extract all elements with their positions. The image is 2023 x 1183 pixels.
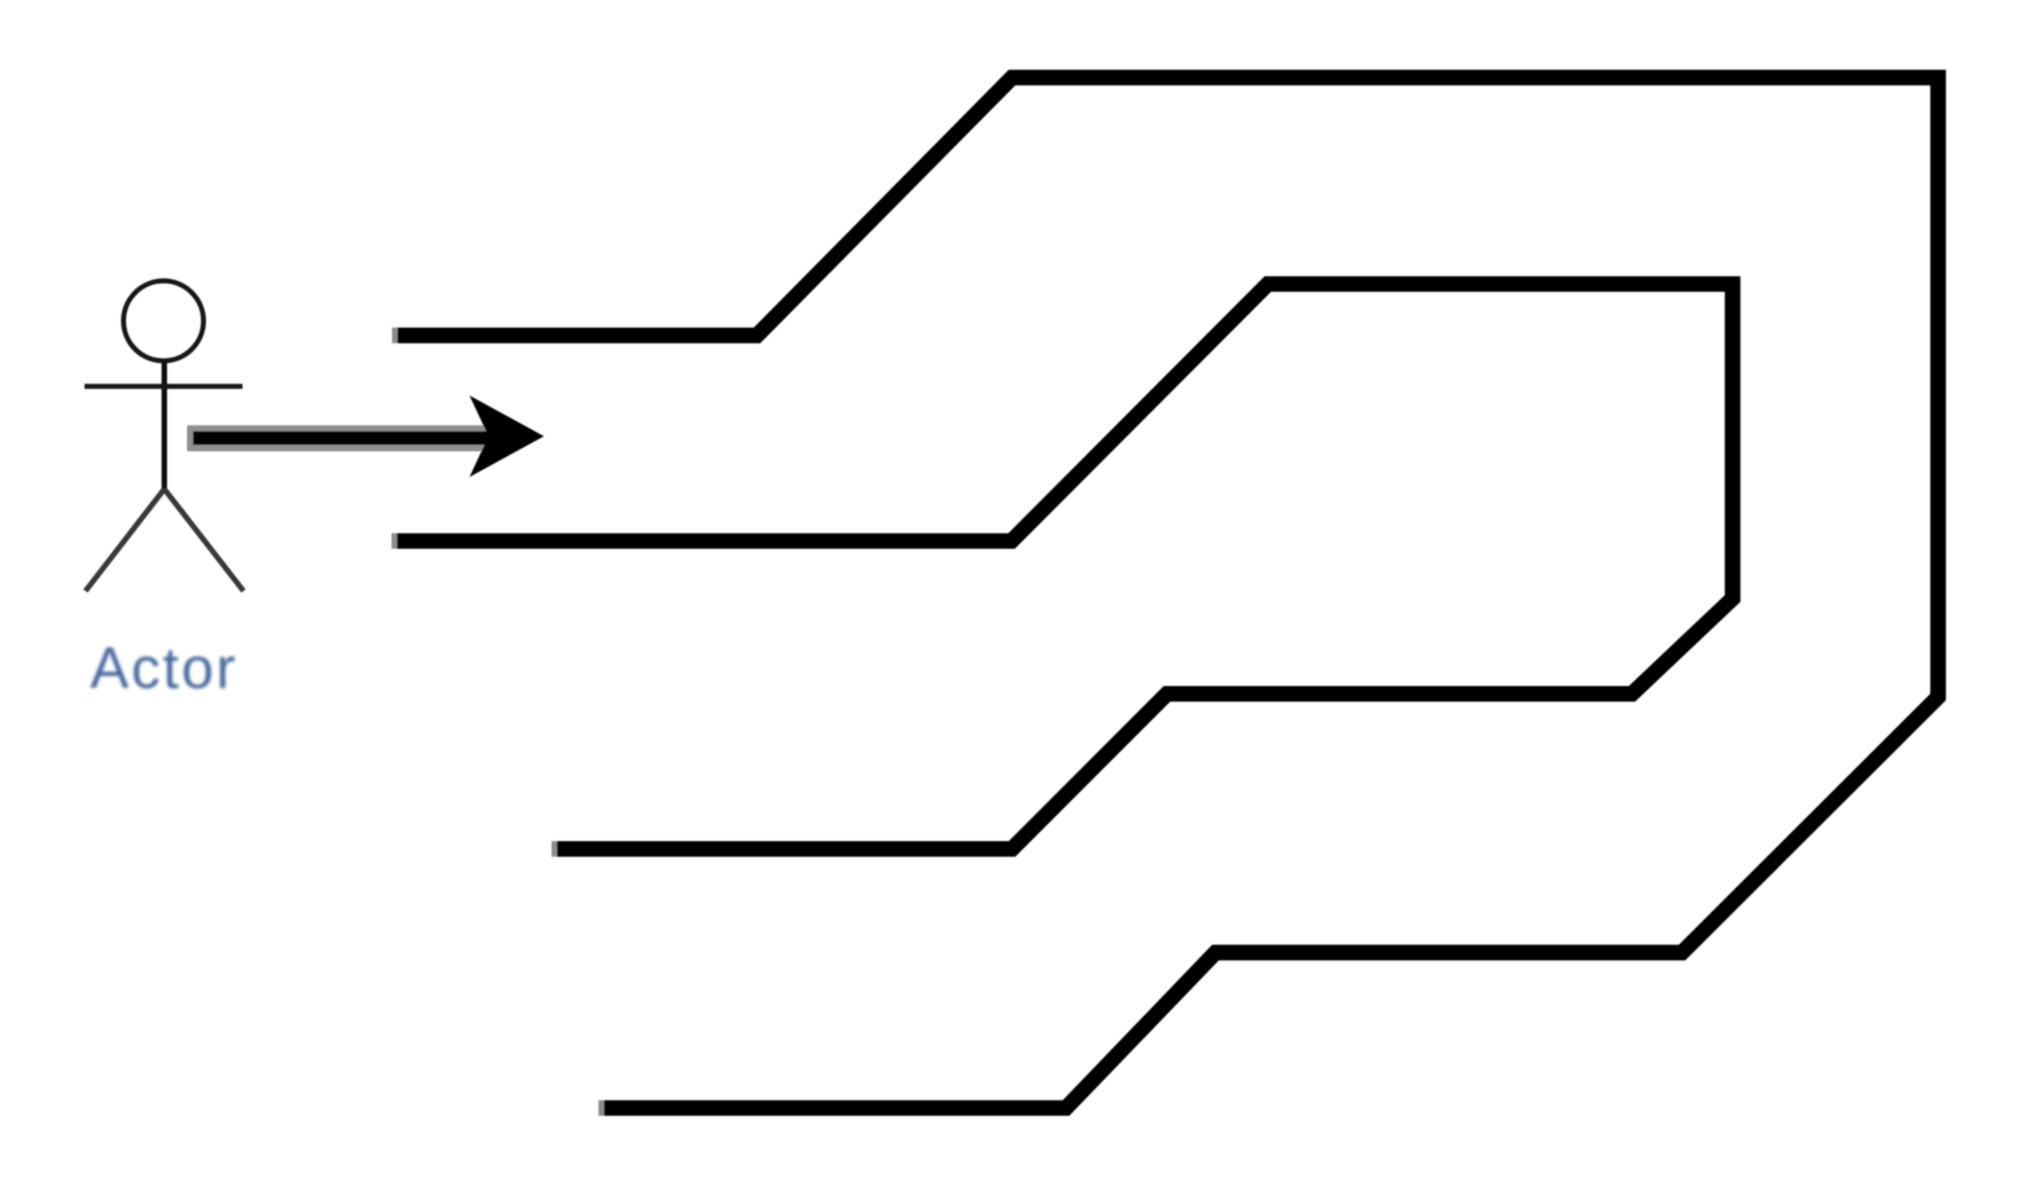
svg-text:Actor: Actor: [90, 636, 238, 701]
